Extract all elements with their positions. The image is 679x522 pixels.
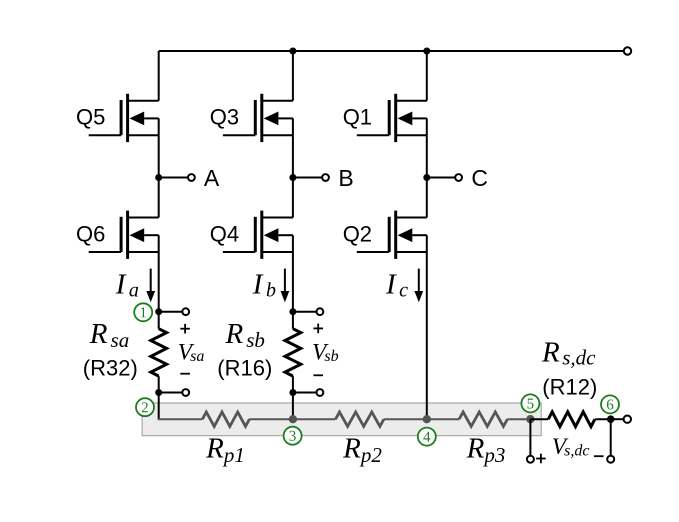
wire source Q2 down to node 4 [426,252,428,419]
terminal node C open circle [455,174,462,181]
junction node 4 [423,415,431,423]
wire Rp1 to node 3 [249,418,293,420]
transistor Q3 [223,94,293,142]
transistor Q4 [223,211,293,259]
terminal node B open circle [322,174,329,181]
junction node B [289,174,296,181]
node 2 marker [136,398,154,416]
shaded PCB trace region [142,403,541,436]
wire node6 to terminal [611,418,624,420]
terminal Rsb bottom open circle [317,389,324,396]
resistor Rsdc [548,412,595,427]
node 6 marker [601,395,619,413]
wire node B to terminal [293,177,323,179]
wire source Q6 to node 1 [158,252,160,312]
wire Rsa bottom terminal [159,392,183,394]
wire node1 to Rsa [158,312,160,329]
svg-text:Q2: Q2 [343,221,372,246]
wire node A to terminal [159,177,189,179]
node 3 marker [284,427,302,445]
wire node5 to Rsdc [530,418,548,420]
svg-text:(R12): (R12) [542,375,597,400]
wire node 3 to Rp2 [293,418,336,420]
junction node C [423,174,430,181]
svg-text:Q5: Q5 [76,105,105,130]
svg-text:(R32): (R32) [83,355,138,380]
junction node 5 [526,415,534,423]
terminal Rsb top open circle [317,308,324,315]
label minus Vsb [313,374,323,376]
junction Rsa top (node 1) [155,308,162,315]
junction Rsa bottom [155,389,162,396]
arrow current Ic [418,269,420,293]
svg-text:Q1: Q1 [343,105,372,130]
svg-text:Q3: Q3 [210,105,239,130]
junction Rsb top [289,308,296,315]
wire node to drain Q2 [426,178,428,218]
wire band node2 corner [158,418,203,420]
label plus Vsdc [536,458,546,460]
wire Rsb top terminal [293,311,317,313]
wire node C to terminal [427,177,456,179]
svg-text:(R16): (R16) [217,355,272,380]
wire top DC+ rail [159,50,624,52]
node 5 marker [521,394,539,412]
wire Rsb node to resistor [292,312,294,329]
wire source upper FET to node (Q2 column) [426,135,428,177]
wire node 4 to Rp3 [427,418,459,420]
wire Rsb to bottom junction [292,376,294,392]
junction node 6 [607,415,615,423]
label minus Vsdc [594,455,604,457]
junction node 3 [289,415,297,423]
transistor Q6 [89,211,159,259]
label minus Vsa [180,373,190,375]
wire drain Q1 to rail [426,51,428,101]
wire Rsa top terminal [159,311,183,313]
junction top rail / phase C leg [423,48,430,55]
junction Rsb bottom [289,389,296,396]
svg-text:Q6: Q6 [76,221,105,246]
wire source Q4 to Rsb top [292,252,294,312]
node 1 marker [134,303,152,321]
transistor Q2 [357,211,427,259]
wire node to drain Q4 [292,178,294,218]
terminal DC- open circle [624,416,631,423]
wire node6 sense drop [610,419,612,456]
wire source upper FET to node (Q4 column) [292,135,294,177]
wire Rp2 to node 4 [384,418,427,420]
wire Rsdc to node 6 [595,418,611,420]
transistor Q1 [357,94,427,142]
junction top rail / phase B leg [289,48,296,55]
wire Rsa to bottom junction [158,376,160,392]
svg-text:B: B [338,165,353,191]
terminal Rsa top open circle [182,308,189,315]
wire node5 sense drop [529,419,531,456]
svg-text:C: C [471,165,488,191]
terminal node A open circle [188,174,195,181]
junction node A [155,174,162,181]
node 4 marker [418,428,436,446]
svg-text:Q4: Q4 [210,221,239,246]
wire Rsb bottom terminal [293,392,317,394]
wire Rsa bottom to band [158,393,160,420]
wire node to drain Q6 [158,178,160,218]
resistor Rsa [151,329,167,376]
label plus Vsb [313,327,323,329]
wire drain Q3 to rail [292,51,294,101]
arrow current Ia [150,269,152,293]
svg-text:A: A [204,165,220,191]
terminal DC+ rail open circle [624,47,631,54]
arrow current Ib [284,269,286,293]
resistor Rsb [285,329,301,376]
terminal Vsdc plus open circle [527,456,534,463]
wire Rsb bottom to band [292,393,294,420]
terminal Rsa bottom open circle [182,389,189,396]
terminal Vsdc minus open circle [607,456,614,463]
wire Rp3 to node 5 [507,418,530,420]
wire source upper FET to node (Q6 column) [158,135,160,177]
resistor Rp1 [202,412,249,426]
resistor Rp3 [459,412,507,426]
label plus Vsa [180,328,190,330]
transistor Q5 [89,94,159,142]
resistor Rp2 [336,412,384,426]
wire drain Q5 to rail [158,51,160,101]
